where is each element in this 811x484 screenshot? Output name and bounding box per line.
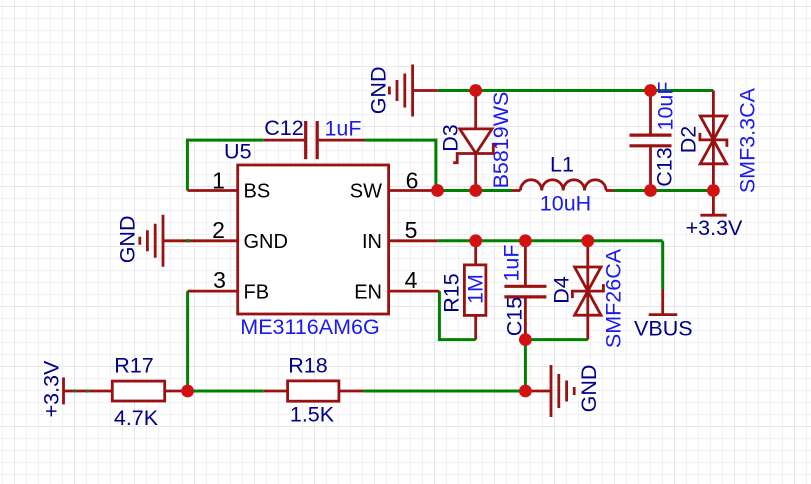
node D3 bottom — [469, 184, 482, 197]
svg-text:1.5K: 1.5K — [290, 403, 335, 427]
wire C15 bottom to ground rail — [524, 340, 527, 391]
svg-text:SW: SW — [350, 181, 382, 203]
resistor R17 — [112, 381, 187, 401]
capacitor C15 — [504, 241, 546, 340]
svg-text:3: 3 — [213, 267, 226, 293]
node R15 top — [469, 234, 482, 247]
node D2 bottom — [707, 184, 720, 197]
svg-text:+3.3V: +3.3V — [686, 216, 743, 240]
svg-text:B5819WS: B5819WS — [489, 92, 513, 189]
resistor R15 — [464, 241, 486, 340]
power +3.3V left — [64, 377, 113, 404]
svg-text:R15: R15 — [439, 273, 463, 312]
svg-text:1M: 1M — [464, 274, 488, 304]
node D4 top — [581, 234, 594, 247]
svg-text:2: 2 — [212, 217, 225, 243]
IC U5 pin 4 stub — [389, 290, 440, 293]
svg-text:5: 5 — [405, 217, 418, 243]
IC U5 body — [238, 165, 389, 314]
wire C12 right to SW — [365, 140, 436, 190]
node FB junction — [181, 385, 194, 398]
svg-text:1uF: 1uF — [500, 244, 524, 281]
IC U5 pin 3 stub — [188, 290, 238, 293]
power +3.3V under D2 — [700, 191, 726, 216]
svg-text:4.7K: 4.7K — [114, 406, 159, 430]
diode D2 TVS — [700, 91, 727, 191]
svg-text:GND: GND — [116, 216, 140, 264]
IC U5 pin 6 stub — [389, 189, 438, 192]
svg-text:6: 6 — [406, 167, 419, 193]
svg-text:1uF: 1uF — [324, 117, 361, 141]
svg-text:4: 4 — [405, 267, 418, 293]
svg-text:VBUS: VBUS — [634, 316, 693, 340]
wire EN to R15 bottom — [439, 291, 475, 340]
wire GND top rail — [438, 89, 714, 92]
svg-text:10uF: 10uF — [654, 81, 678, 130]
node ground junction — [519, 385, 532, 398]
node C15 bottom — [519, 333, 532, 346]
svg-text:SMF26CA: SMF26CA — [602, 248, 626, 348]
wire C15 bottom to D4 bottom — [525, 338, 587, 341]
svg-text:GND: GND — [367, 67, 391, 115]
node C15 top — [519, 234, 532, 247]
svg-text:C15: C15 — [503, 297, 527, 336]
wire junction to R18 — [188, 390, 264, 393]
svg-text:+3.3V: +3.3V — [40, 360, 64, 417]
node D3 top — [469, 84, 482, 97]
capacitor C13 — [630, 91, 672, 191]
IC U5 pin 1 stub — [187, 189, 237, 192]
svg-text:D4: D4 — [550, 276, 574, 304]
svg-text:SMF3.3CA: SMF3.3CA — [736, 87, 760, 193]
resistor R18 — [264, 381, 364, 401]
power VBUS — [649, 290, 678, 315]
svg-text:IN: IN — [362, 231, 382, 253]
svg-text:ME3116AM6G: ME3116AM6G — [240, 315, 379, 339]
svg-text:U5: U5 — [224, 140, 252, 164]
wire FB drop — [186, 291, 189, 391]
wire L1 to D2 bottom — [614, 189, 713, 192]
svg-text:R18: R18 — [288, 354, 327, 378]
ground bottom — [525, 365, 574, 417]
pin end dot power lead b — [86, 389, 89, 392]
svg-text:GND: GND — [577, 365, 601, 413]
svg-text:FB: FB — [244, 282, 270, 304]
svg-text:C12: C12 — [264, 116, 303, 140]
svg-text:D2: D2 — [677, 126, 701, 153]
wire BS riser to C12 — [187, 140, 263, 190]
svg-text:1: 1 — [212, 167, 225, 193]
ground top — [389, 65, 437, 117]
node C13 bottom — [644, 184, 657, 197]
diode D4 TVS — [572, 241, 603, 340]
wire VBUS drop — [661, 241, 664, 290]
svg-text:GND: GND — [244, 231, 288, 253]
diode D3 schottky — [453, 91, 497, 191]
node C13 top — [644, 84, 657, 97]
svg-text:L1: L1 — [550, 153, 574, 177]
svg-text:BS: BS — [244, 181, 271, 203]
capacitor C12 — [264, 121, 365, 159]
wire SW to L1 — [437, 189, 513, 192]
pin end dot power lead a — [73, 389, 76, 392]
wire IN rail — [438, 239, 663, 242]
svg-text:10uH: 10uH — [540, 192, 591, 216]
svg-text:C13: C13 — [653, 147, 677, 186]
IC U5 pin 5 stub — [389, 239, 438, 242]
IC U5 pin 2 stub — [163, 239, 238, 242]
svg-text:R17: R17 — [114, 354, 153, 378]
svg-text:D3: D3 — [439, 124, 463, 152]
inductor L1 — [512, 180, 614, 191]
svg-text:EN: EN — [354, 282, 382, 304]
wire R18 to ground junction — [364, 390, 526, 393]
pin end dot pin2 — [186, 239, 190, 243]
node SW pin6 — [431, 184, 444, 197]
ground at pin 2 — [140, 215, 163, 267]
